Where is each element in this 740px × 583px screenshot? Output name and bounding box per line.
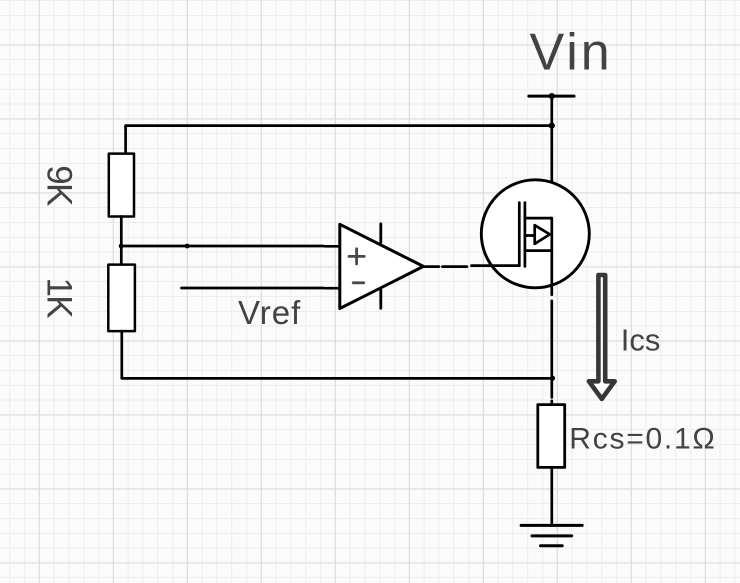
current arrow Ics [589,275,615,399]
ground [521,525,582,545]
Q1 channel bar [524,203,527,267]
op-amp + input marking [349,249,364,264]
Vin terminal dot [549,93,555,99]
Q1 internal drain-source vertical [550,218,553,295]
op-amp positive supply stub [379,224,382,243]
wire: source down to sense node and Rcs [550,301,553,405]
op-amp - input marking [353,281,364,284]
resistor R2 1K [108,265,135,332]
Q1 gate lead [472,264,520,267]
wire: R1 bottom to divider node [120,217,123,247]
svg-text:Vin: Vin [530,23,613,81]
Q1 body diode arrow [535,225,550,244]
wire: Vin vertical down to MOSFET drain [550,96,553,218]
wire: node down to R2 top [120,246,123,265]
junction dot at sense node [550,376,555,381]
Q1 gate bar [518,203,521,266]
wire: divider node to op-amp + input [121,245,339,248]
svg-text:9K: 9K [40,165,79,206]
resistor Rcs [538,405,565,468]
wire: Rcs bottom to ground [550,467,553,525]
svg-text:Ics: Ics [621,323,661,358]
wire: R2 bottom to bottom rail to sense node [122,331,552,378]
junction dot at top rail / Vin vertical [549,123,555,129]
wire: Vref lead to op-amp - input [182,287,340,290]
Q1 drain stub [525,217,552,220]
resistor R1 9K [109,154,134,217]
transistor Q1 MOSFET body circle [481,180,589,288]
op-amp negative supply stub [379,289,382,309]
svg-text:1K: 1K [40,278,79,319]
op-amp U1 triangle [340,224,424,308]
svg-text:Rcs=0.1Ω: Rcs=0.1Ω [569,423,716,456]
wire: top rail from R1 top to Vin vertical [126,126,552,154]
Q1 source stub [525,249,552,252]
wire: op-amp output toward gate [423,265,467,268]
svg-text:Vref: Vref [238,294,301,331]
junction dot on + input wire [185,244,190,249]
node divider junction dot [119,244,124,249]
Vin terminal bar [529,95,574,98]
Q1 body stub [525,234,535,237]
